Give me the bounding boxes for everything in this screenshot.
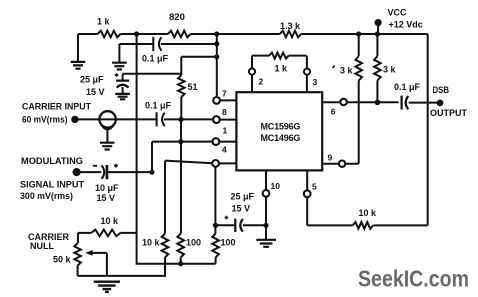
wire bias vertical x=136.6 [136, 34, 138, 233]
wire 0.1uF bypass line y=44 [119, 43, 216, 45]
svg-text:MC1596G: MC1596G [261, 122, 301, 132]
pin 6 wire [322, 101, 399, 103]
wire pot bottom lead [77, 266, 79, 276]
wire top supply rail y=34 [78, 33, 428, 35]
wire 51/bias vertical x=181.3 [180, 57, 182, 120]
svg-text:DSB: DSB [433, 85, 450, 95]
ground G2 [112, 63, 127, 70]
resistor R 1.3k [280, 31, 301, 38]
svg-text:25 μF: 25 μF [80, 75, 104, 85]
svg-text:SIGNAL INPUT: SIGNAL INPUT [20, 180, 85, 190]
wire x=165 down from pin4 corner [164, 161, 166, 234]
resistor R 10k (vertical) [162, 234, 169, 258]
pin 2 circle [249, 69, 255, 75]
label minus of 10uF [93, 165, 97, 167]
wire VCC right rail x=427.7 [427, 34, 429, 225]
pin 8 stub [220, 119, 237, 121]
svg-text:+12 Vdc: +12 Vdc [389, 20, 423, 30]
capacitor C 25uF 15V (bottom electrolytic) [216, 224, 267, 226]
pin 9 wire [322, 163, 359, 165]
node dot 217/43.8 [214, 41, 219, 46]
pin 7 stub [220, 99, 237, 101]
svg-text:60 mV(rms): 60 mV(rms) [22, 115, 68, 125]
svg-text:0.1 μF: 0.1 μF [142, 54, 169, 64]
svg-text:15 V: 15 V [86, 87, 105, 97]
wire carrier line y=119.4 [79, 118, 214, 120]
svg-text:4: 4 [222, 145, 227, 155]
wire 3k1 vertical x=358.7 [358, 34, 360, 164]
pin 10 circle [263, 190, 270, 197]
wire wiper down x=106.9 [106, 253, 108, 276]
wire bias tap y=56.8 [181, 56, 217, 58]
wire modulating line y=172 [81, 171, 152, 173]
tick before 3k [333, 66, 335, 68]
wire ground stem G2 [118, 44, 120, 62]
svg-text:3 k: 3 k [383, 65, 397, 75]
pin 6 circle [340, 99, 346, 105]
svg-text:1 k: 1 k [275, 64, 289, 74]
carrier source shield wedge [101, 125, 114, 130]
wire 25uF top link y=73.8 [123, 73, 182, 75]
pin 2 lead [251, 56, 253, 93]
wire pin1 line y=141.6 [152, 141, 212, 143]
svg-text:51: 51 [188, 82, 198, 92]
wire 3k2 vertical x=377.4 [376, 34, 378, 102]
node dot pin10/cap/ground junction [263, 223, 268, 228]
wire carrier shield stem [106, 130, 108, 142]
svg-text:7: 7 [222, 89, 227, 99]
capacitor C 25uF 15V (electrolytic, left) [122, 74, 124, 94]
pin 10 lead [265, 170, 267, 190]
wire pin10 vertical [265, 197, 267, 239]
node dot resistor bottoms junction [178, 261, 183, 266]
svg-text:100: 100 [186, 238, 201, 248]
terminal modulating input [73, 168, 81, 176]
svg-text:0.1 μF: 0.1 μF [394, 82, 421, 92]
svg-text:NULL: NULL [30, 241, 54, 251]
svg-text:VCC: VCC [388, 8, 408, 18]
node dot 3k2 top [375, 31, 380, 36]
pin 4 stub [219, 162, 237, 164]
resistor R 100 (first) [177, 234, 184, 258]
svg-text:25 μF: 25 μF [231, 192, 255, 202]
svg-text:3: 3 [313, 77, 318, 87]
node dot 3k1 top [356, 31, 361, 36]
carrier source connector circle [99, 111, 115, 127]
ground G3 [115, 94, 130, 99]
label + of 25uF left [115, 73, 119, 77]
wire 100#1 bottom lead [180, 258, 182, 264]
wire V217 from 820 node to pin7 [216, 34, 218, 97]
capacitor C 0.1uF (carrier) [157, 112, 165, 126]
svg-text:OUTPUT: OUTPUT [430, 108, 468, 118]
wire VCC stem [377, 26, 379, 34]
svg-text:10 k: 10 k [142, 238, 161, 248]
resistor R 820 [168, 31, 191, 38]
svg-text:9: 9 [328, 153, 333, 163]
pin 3 circle [304, 69, 310, 75]
svg-text:6: 6 [331, 106, 336, 116]
terminal DSB output [437, 100, 444, 107]
pot wiper arrow [90, 252, 107, 254]
wire carrier null 10k line y=232.9 [78, 232, 137, 234]
svg-text:820: 820 [169, 12, 185, 23]
svg-text:10 μF: 10 μF [95, 183, 119, 193]
svg-text:8: 8 [222, 107, 227, 117]
ground G1 [71, 62, 86, 69]
wire 1k between pins 2-3 [252, 55, 307, 57]
wire bottom null line y=275.9 [78, 275, 165, 277]
svg-text:10: 10 [271, 181, 281, 191]
svg-text:1.3 k: 1.3 k [280, 21, 301, 31]
svg-text:300 mV(rms): 300 mV(rms) [20, 191, 73, 201]
pin 1 stub [219, 141, 236, 143]
resistor R 3k (first) [355, 56, 362, 80]
IC U1 MC1596G box [236, 92, 322, 170]
ground G6 (floating bars) [94, 282, 120, 292]
resistor R 1k (pins 2-3) [269, 53, 289, 59]
svg-text:5: 5 [312, 182, 317, 192]
resistor R 3k (second) [374, 56, 381, 80]
svg-text:MODULATING: MODULATING [21, 156, 83, 166]
svg-text:1: 1 [223, 126, 228, 136]
svg-text:3 k: 3 k [340, 66, 354, 76]
wire x=181 carrier down to 100 resistor [180, 119, 182, 233]
wire x=165 through resistor bottom to pot line [164, 258, 166, 278]
wire pin5 vertical and 10k bias line [307, 197, 428, 225]
svg-text:50 k: 50 k [53, 255, 72, 265]
terminal carrier input [71, 116, 78, 123]
svg-text:15 V: 15 V [232, 204, 251, 214]
svg-text:0.1 μF: 0.1 μF [145, 101, 172, 111]
wire bias lower x=136.6 with corner to resistor bottoms [137, 233, 216, 264]
pin 8 circle [213, 116, 220, 123]
svg-text:CARRIER INPUT: CARRIER INPUT [22, 102, 91, 112]
resistor R 1k (top left) [98, 31, 121, 38]
capacitor C 0.1uF (top) [153, 37, 161, 51]
pin 1 circle [213, 138, 220, 145]
node dot 217/34 [214, 31, 219, 36]
pin 5 circle [304, 190, 311, 197]
label plus of 10uF [114, 164, 118, 168]
ground G4 [100, 143, 115, 150]
label + of 25uF bottom [225, 216, 229, 220]
capacitor C 0.1uF (output) [402, 96, 409, 110]
ground G5 [256, 240, 276, 247]
wire x=152 down to modulating junction [151, 142, 153, 173]
capacitor C 10uF 15V (modulating electrolytic) [102, 165, 105, 179]
resistor R 10k (bottom right) [353, 222, 374, 229]
pin 9 circle [339, 161, 345, 167]
svg-text:15 V: 15 V [97, 193, 116, 203]
resistor R 100 (second) [212, 234, 219, 258]
node dot pin1/bias junction [178, 139, 183, 144]
wire pin4 line y=161 [165, 161, 212, 164]
resistor R 10k (carrier null) [91, 230, 120, 237]
resistor R 51 [178, 75, 185, 97]
svg-text:SeekIC.com: SeekIC.com [358, 266, 469, 292]
svg-text:100: 100 [221, 238, 236, 248]
wire pin4 circle down to 25uF junction [214, 167, 216, 234]
terminal VCC [375, 19, 382, 26]
pin 5 lead [306, 170, 308, 190]
pin 4 circle [212, 160, 219, 167]
node dot 3k2 bottom junction [375, 100, 381, 106]
potentiometer 50k [74, 243, 81, 265]
node dot 217/56.8 [214, 54, 219, 59]
wire output line to DSB terminal [409, 102, 437, 104]
pin 7 circle [213, 97, 220, 104]
svg-text:1 k: 1 k [97, 17, 111, 27]
wire ground stem left [77, 34, 79, 61]
svg-text:10 k: 10 k [359, 208, 378, 218]
svg-text:2: 2 [259, 77, 264, 87]
node dot 25uF left junction [213, 223, 218, 228]
node dot modulating junction [149, 170, 154, 175]
node dot carrier/51 junction [178, 117, 183, 122]
node dot 820/1k junction [134, 31, 139, 36]
pin 3 lead [306, 56, 308, 93]
svg-text:10 k: 10 k [101, 216, 120, 226]
wire pot top lead [77, 233, 79, 243]
svg-text:MC1496G: MC1496G [261, 133, 301, 143]
